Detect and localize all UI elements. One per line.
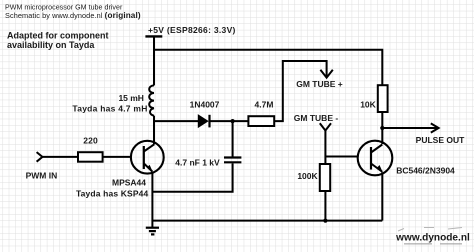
wire GM TUBE - stem to 100K: [324, 131, 326, 165]
svg-text:100K: 100K: [297, 171, 318, 181]
wire inductor to Q1 collector: [153, 116, 155, 144]
svg-text:+5V (ESP8266: 3.3V): +5V (ESP8266: 3.3V): [148, 25, 236, 35]
wire 100K to bottom rail: [324, 191, 326, 221]
wire cap bottom to emitter: [152, 163, 232, 191]
resistor 100K: [320, 164, 330, 191]
resistor 4.7M: [248, 116, 274, 126]
wire to Q2 base: [325, 156, 358, 158]
svg-text:GM TUBE -: GM TUBE -: [294, 113, 339, 123]
svg-text:Adapted for component: Adapted for component: [7, 31, 109, 41]
wire top rail: [154, 50, 382, 85]
svg-text:availability on Tayda: availability on Tayda: [7, 40, 95, 50]
wire diode to node A: [210, 120, 249, 122]
GM TUBE + arrowhead: [320, 70, 332, 78]
junction dot pulse out: [380, 126, 384, 130]
transistor Q1 MPSA44: [131, 141, 164, 174]
svg-text:Tayda has 4.7 mH: Tayda has 4.7 mH: [72, 104, 147, 114]
svg-text:Tayda has KSP44: Tayda has KSP44: [76, 189, 149, 199]
power +5V bar symbol: [145, 35, 162, 37]
svg-text:4.7M: 4.7M: [255, 100, 274, 110]
transistor Q2 BC546/2N3904: [358, 141, 393, 176]
PULSE OUT arrow: [382, 127, 437, 129]
capacitor C1 plates: [224, 158, 241, 163]
svg-text:4.7 nF 1 kV: 4.7 nF 1 kV: [175, 157, 220, 167]
svg-text:BC546/2N3904: BC546/2N3904: [396, 166, 455, 176]
ground symbol: [146, 228, 159, 235]
wire 4.7M to GM TUBE + arrow: [274, 61, 326, 121]
wire input to 220: [42, 156, 78, 158]
junction dot 100K bottom: [323, 219, 327, 223]
svg-text:GM TUBE +: GM TUBE +: [296, 79, 343, 89]
svg-text:220: 220: [83, 136, 98, 146]
svg-text:PULSE OUT: PULSE OUT: [416, 135, 465, 145]
node A junction dot: [231, 119, 235, 123]
svg-text:PWM IN: PWM IN: [26, 171, 58, 181]
input terminal PWM IN: [37, 152, 43, 162]
wire Q1 emitter to ground: [151, 172, 153, 228]
resistor 10K: [378, 85, 388, 112]
wire 10K to Q2 collector: [381, 112, 383, 144]
bottom rail wire: [152, 220, 382, 222]
svg-text:1N4007: 1N4007: [190, 100, 220, 110]
watermark www.dynode.nl: [395, 228, 470, 244]
svg-text:www.dynode.nl: www.dynode.nl: [395, 232, 470, 243]
svg-text:MPSA44: MPSA44: [112, 178, 146, 188]
capacitor C1 wire from node A: [232, 121, 234, 157]
svg-text:Schematic by www.dynode.nl (or: Schematic by www.dynode.nl (original): [5, 11, 141, 20]
svg-text:10K: 10K: [360, 100, 376, 110]
wire +5V down to inductor: [153, 36, 155, 85]
GM TUBE - terminal V: [320, 123, 331, 130]
svg-text:15 mH: 15 mH: [118, 93, 144, 103]
inductor L 15 mH: [149, 85, 154, 115]
wire 220 to Q1 base: [103, 156, 132, 158]
wire Q2 emitter to bottom rail: [381, 172, 383, 220]
resistor 220: [78, 152, 103, 162]
wire node to diode: [154, 120, 198, 122]
diode D1 1N4007: [198, 115, 209, 128]
